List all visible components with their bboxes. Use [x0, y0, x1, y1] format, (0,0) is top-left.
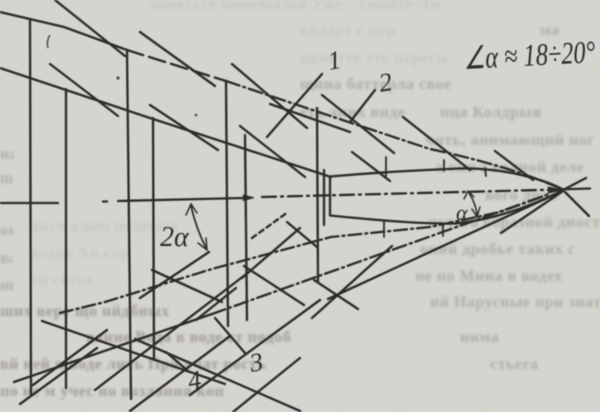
svg-text:α: α [456, 200, 468, 225]
svg-text:2α: 2α [160, 222, 190, 253]
svg-text:∠α ≈ 18÷20°: ∠α ≈ 18÷20° [463, 35, 597, 76]
